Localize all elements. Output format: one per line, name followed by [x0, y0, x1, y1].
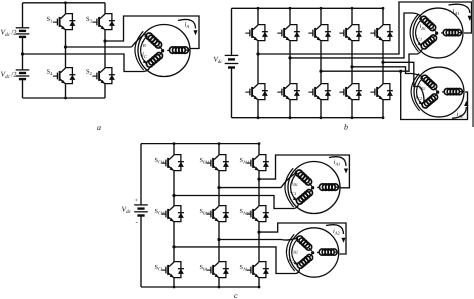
wire: phase B1 bus (leg2): [290, 13, 421, 58]
motor M1 (circuit c): [285, 162, 340, 214]
switch b leg3 lower (IGBT+diode): [308, 82, 331, 101]
label Vdc/2 lower: [1, 70, 18, 81]
switch SCH (IGBT+diode): [161, 153, 184, 172]
battery Vdc (circuit c): [134, 205, 148, 216]
label iA2: [457, 111, 464, 119]
wire: phase B1 line (c): [219, 172, 297, 187]
label iA2 (c): [333, 228, 340, 236]
wire: c legB collector drop: [218, 142, 221, 153]
label iB: [141, 41, 146, 49]
svg-text:a: a: [97, 123, 101, 132]
wire: b leg4 emitter to rail: [351, 101, 354, 119]
wire: b leg1 upper collector: [257, 7, 260, 23]
switch SBL (IGBT+diode): [206, 260, 229, 279]
switch b leg1 lower (IGBT+diode): [245, 82, 268, 101]
label iC1 (c): [290, 188, 297, 196]
current arrow iA: [178, 19, 198, 35]
label iB1 (c): [292, 180, 298, 188]
wire: b leg5 midpoint: [382, 42, 384, 82]
label Vdc/2 upper: [1, 27, 18, 38]
switch S3 (IGBT+diode): [92, 12, 115, 31]
switch b leg4 upper (IGBT+diode): [339, 23, 362, 42]
switch S4 (IGBT+diode): [53, 66, 76, 85]
wire: phase A1 loop to motor c1: [259, 155, 349, 188]
label iB1: [420, 23, 426, 31]
node c B2 tap: [217, 238, 220, 241]
wire: c legB lower midpoint: [218, 223, 220, 260]
label SCM: [155, 208, 165, 216]
wire: phase C2 bus (leg5): [383, 62, 424, 103]
label S4: [47, 69, 54, 77]
label b (sub-figure): [344, 123, 348, 132]
circuit c: left battery wire: [140, 144, 142, 287]
wire: b leg4 midpoint: [351, 42, 353, 82]
wire: phase C line: [23, 54, 150, 72]
wire: leg2 midpoint: [104, 31, 106, 66]
node c B1 tap: [217, 186, 220, 189]
node c A2 tap: [257, 231, 260, 234]
battery Vdc (circuit b): [225, 55, 239, 67]
label SBL: [200, 264, 209, 272]
node b leg4 output: [350, 65, 353, 68]
label Vdc (circuit c): [122, 205, 132, 216]
label SBH: [200, 157, 209, 165]
circuit b: battery lead wires: [231, 8, 233, 117]
label iC2: [416, 94, 423, 102]
circuit b: bottom DC rail: [232, 117, 384, 119]
label S1: [47, 16, 53, 24]
node b leg3 output: [319, 70, 322, 73]
wire: leg2 collector drop: [104, 3, 106, 12]
wire: c legB upper midpoint: [218, 172, 220, 204]
current arrow iA1: [449, 4, 473, 21]
wire: b leg2 upper collector: [289, 7, 292, 23]
svg-text:c: c: [234, 291, 238, 299]
label iC2 (c): [289, 257, 296, 265]
label iA1 (c): [334, 159, 341, 167]
wire: phase C2 line (c): [174, 247, 299, 274]
label iC1: [416, 34, 423, 42]
wire: b leg1 emitter to rail: [257, 101, 260, 119]
wire: b leg5 emitter to rail: [382, 101, 385, 119]
label iB2 (c): [292, 247, 298, 255]
label iA1: [453, 8, 460, 17]
node b leg1 output: [256, 52, 259, 55]
wire: phase A2 branch (leg3 shared, bottom loop): [399, 70, 467, 120]
motor M2 (circuit b): [411, 67, 464, 117]
label Vdc (circuit b): [214, 56, 224, 66]
switch SAL (IGBT+diode): [246, 260, 269, 279]
wire: b leg2 emitter to rail: [289, 101, 292, 119]
switch S2 (IGBT+diode): [92, 66, 115, 85]
svg-text:/2: /2: [11, 28, 17, 36]
circuit a: left DC-link wire: [22, 3, 24, 98]
wire: phase B line: [66, 34, 145, 47]
wire: leg1 collector drop: [64, 1, 67, 12]
node c A1 tap: [257, 178, 260, 181]
wire: phase C1 bus (leg3): [321, 49, 422, 71]
switch SCL (IGBT+diode): [161, 260, 184, 279]
label + (battery c): [135, 198, 139, 204]
wire: phase B2 bus (leg4): [352, 67, 422, 76]
svg-text:/2: /2: [11, 71, 17, 79]
wire: c legA lower midpoint: [258, 223, 260, 260]
battery Vdc/2 lower: [16, 70, 30, 79]
wire: b leg3 upper collector: [320, 7, 323, 23]
label S3: [86, 16, 93, 24]
circuit c: bottom DC rail: [141, 286, 259, 288]
motor M (circuit a): [135, 25, 190, 77]
switch b leg1 upper (IGBT+diode): [245, 23, 268, 42]
switch SBM (IGBT+diode): [206, 204, 229, 223]
label SCL: [155, 264, 164, 272]
wire: c legA collector drop: [258, 142, 261, 153]
current arrow iA2: [452, 101, 469, 119]
label SAM: [240, 208, 251, 216]
current arrow iA2 (c): [326, 225, 346, 243]
wire: b leg5 upper collector: [382, 7, 385, 23]
node A-phase-A tap: [103, 39, 106, 42]
label SBM: [200, 208, 210, 216]
wire: c legA upper midpoint: [258, 172, 260, 204]
wire: leg2 emitter to rail: [104, 85, 106, 98]
scan page-edge artifact (right): [472, 0, 474, 127]
battery Vdc/2 upper: [16, 28, 30, 37]
label - (battery c): [136, 218, 139, 226]
wire: c legC collector drop: [173, 142, 176, 153]
switch SBH (IGBT+diode): [206, 153, 229, 172]
switch SAM (IGBT+diode): [246, 204, 269, 223]
wire: c legA emitter to rail: [258, 279, 261, 288]
wire: phase A loop to motor a: [105, 16, 199, 49]
node A-phase-B tap: [64, 45, 67, 48]
wire: c legC emitter to rail: [173, 279, 176, 288]
wire: phase A2 loop to motor c2: [259, 223, 346, 254]
label iB2: [419, 84, 425, 92]
svg-text:b: b: [344, 123, 348, 132]
switch b leg2 lower (IGBT+diode): [277, 82, 300, 101]
label S2: [86, 69, 92, 77]
label iA: [185, 22, 190, 30]
wire: c legC lower midpoint: [173, 223, 175, 260]
circuit a: bottom DC rail: [23, 97, 106, 99]
switch SCM (IGBT+diode): [161, 204, 184, 223]
node b leg5 output: [381, 61, 384, 64]
node c C2 tap: [172, 245, 175, 248]
label SCH: [155, 157, 164, 165]
wire: b leg3 midpoint: [320, 42, 322, 82]
wire: phase A1 bus (leg1 to motor1 top loop): [258, 2, 472, 54]
node c C1 tap: [172, 194, 175, 197]
label c (sub-figure): [234, 291, 238, 299]
motor M1 (circuit b): [410, 8, 463, 58]
switch b leg4 lower (IGBT+diode): [339, 82, 362, 101]
label SAL: [240, 264, 250, 272]
wire: b leg3 emitter to rail: [320, 101, 323, 119]
switch b leg5 upper (IGBT+diode): [370, 23, 393, 42]
motor M2 (circuit c): [286, 228, 338, 277]
wire: b leg2 midpoint: [289, 42, 291, 82]
wire: phase C1 line (c): [174, 196, 298, 209]
wire: leg1 emitter to rail: [64, 85, 67, 99]
wire: c legC upper midpoint: [173, 172, 175, 204]
wire: c legB emitter to rail: [218, 279, 221, 288]
wire: leg1 midpoint: [65, 31, 67, 66]
wire: b leg1 midpoint: [257, 42, 259, 82]
node b leg2 output: [288, 56, 291, 59]
switch b leg5 lower (IGBT+diode): [370, 82, 393, 101]
wire: b leg4 upper collector: [351, 7, 354, 23]
current arrow iA1 (c): [329, 157, 348, 174]
label SAH: [240, 157, 250, 165]
circuit b: top DC rail: [232, 7, 384, 9]
node: DC-link midpoint: [21, 52, 24, 55]
switch b leg2 upper (IGBT+diode): [277, 23, 300, 42]
circuit c: top DC rail: [141, 143, 259, 145]
label iC: [142, 51, 148, 59]
circuit a: top DC rail: [23, 2, 106, 4]
wire: phase B2 line (c): [219, 238, 297, 240]
switch SAH (IGBT+diode): [246, 153, 269, 172]
switch b leg3 upper (IGBT+diode): [308, 23, 331, 42]
switch S1 (IGBT+diode): [53, 12, 76, 31]
label a (sub-figure): [97, 123, 101, 132]
